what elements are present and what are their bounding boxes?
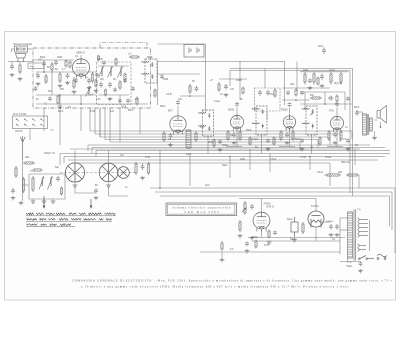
svg-text:T A: T A	[357, 209, 361, 212]
tube V4 detector	[283, 116, 295, 131]
svg-text:C5A5: C5A5	[236, 79, 243, 82]
svg-text:M C1 C2 FM: M C1 C2 FM	[13, 114, 26, 116]
wire phono stub	[12, 49, 15, 52]
svg-text:15 kΩ: 15 kΩ	[325, 156, 332, 159]
resistor R48	[336, 95, 338, 103]
capacitor C35	[160, 75, 164, 80]
capacitor V5kb	[333, 132, 337, 138]
capacitor V4kb	[285, 132, 289, 138]
capacitor C54	[131, 87, 135, 92]
wire osc link	[119, 95, 121, 104]
svg-text:6E8 G: 6E8 G	[77, 51, 86, 55]
capacitor C39	[195, 86, 199, 92]
svg-text:CA B: CA B	[166, 93, 172, 96]
ground V6 k	[250, 236, 255, 240]
wire v5 plate	[336, 130, 338, 147]
antenna	[20, 136, 25, 160]
page border frame	[5, 32, 396, 301]
svg-text:1nF: 1nF	[110, 110, 115, 113]
ground ant 2	[31, 200, 36, 204]
resistor R45	[33, 169, 43, 171]
wire bus line 1 left drop	[89, 108, 91, 131]
ground C3	[87, 86, 92, 90]
resistor R11	[195, 131, 197, 142]
wire heater rail 2	[252, 240, 340, 242]
tube V6 output	[253, 212, 270, 231]
wire screen rail drop	[205, 44, 207, 112]
capacitor C13 disc	[258, 90, 262, 96]
svg-text:50nF: 50nF	[121, 107, 127, 109]
wire AVC rail 3	[68, 159, 378, 161]
wire V1 grid top	[80, 58, 82, 61]
wire tuner bottom rail	[36, 103, 148, 105]
wire ant coil box	[29, 174, 65, 199]
output transformer T5 core	[367, 114, 368, 135]
tube V2 FM IF	[170, 116, 186, 135]
wire bus down 7	[329, 163, 331, 186]
svg-text:6T5: 6T5	[329, 109, 334, 113]
resistor R19	[330, 72, 332, 85]
wire V1 plate up	[80, 55, 82, 61]
wire V6 plate up	[261, 199, 263, 213]
resistor R3 cathode	[73, 78, 75, 89]
ground p3	[335, 233, 340, 237]
wire right edge drop 3	[389, 196, 391, 226]
resistor R27 6800	[346, 174, 359, 176]
capacitor C48	[346, 97, 350, 102]
handwritten note line 1	[26, 213, 116, 216]
wire grid cap tube 4	[289, 108, 291, 118]
wire left col	[11, 62, 13, 65]
capacitor C4 osc	[99, 82, 103, 88]
capacitor C27 50uF	[359, 262, 363, 267]
resistor R41	[249, 137, 251, 146]
IF transformer T1	[142, 59, 157, 83]
svg-text:OC: OC	[120, 154, 124, 157]
junction a1	[324, 103, 326, 105]
wire bus line 2	[95, 133, 340, 135]
ground u3	[300, 147, 305, 151]
wire bus line 3 right drop	[329, 137, 331, 145]
ground u4	[346, 147, 351, 151]
handwritten note line 2	[26, 218, 112, 221]
wire tuner drop f	[139, 108, 141, 134]
wire tuner drop b	[59, 108, 61, 145]
svg-text:470k: 470k	[90, 110, 96, 113]
wire IF top rail	[158, 73, 201, 75]
resistor R10	[163, 131, 165, 142]
wire grid cap tube 2	[177, 106, 179, 116]
wire top rail	[158, 43, 206, 45]
resistor R38	[295, 89, 297, 97]
wire heater rail	[248, 237, 345, 239]
wire audio h2	[300, 103, 352, 105]
svg-text:2MΩ: 2MΩ	[240, 158, 245, 161]
wire bus line 2 left drop	[94, 108, 96, 134]
wire right edge drop 2	[391, 192, 393, 230]
wire antenna down	[22, 160, 24, 201]
coil block L4 FM IF	[186, 130, 191, 148]
wire ift3 drop	[261, 135, 263, 154]
svg-text:AP: AP	[355, 144, 359, 147]
wire mid drop 265	[264, 69, 266, 89]
svg-text:1kΩ: 1kΩ	[338, 171, 343, 174]
capacitor C40	[218, 140, 222, 145]
svg-text:0,1μF: 0,1μF	[214, 100, 221, 103]
shield box oscillator (dashed)	[97, 62, 132, 105]
resistor R15 padder	[135, 162, 137, 175]
svg-text:50nF: 50nF	[246, 129, 252, 132]
wire mid drop 230	[229, 71, 231, 87]
capacitor grid cap C11	[288, 102, 292, 107]
ground V5k	[333, 141, 338, 145]
wire audio row top	[300, 71, 348, 73]
wire bus line 1	[90, 130, 352, 132]
wire V1 pins to parts	[73, 77, 75, 80]
svg-text:1MΩ: 1MΩ	[57, 56, 62, 59]
wire gang mechanical link (dashed)	[60, 172, 135, 174]
resistor V5kc	[340, 130, 342, 141]
wire bus line 8 left drop	[95, 151, 97, 157]
ground p2	[329, 233, 334, 237]
wire heater long	[200, 251, 340, 253]
svg-text:50nF: 50nF	[128, 109, 134, 112]
small filter box	[28, 63, 44, 69]
wire audio v	[324, 92, 326, 104]
resistor R23	[239, 220, 241, 232]
capacitor grid cap C12	[335, 102, 339, 107]
ground V1 cathode	[72, 90, 77, 94]
capacitor C49	[245, 242, 249, 247]
junction bus 2	[229, 156, 231, 158]
svg-text:50p: 50p	[55, 166, 60, 169]
resistor R13 ant	[32, 176, 34, 192]
capacitor C32	[95, 73, 99, 78]
capacitor C44	[11, 188, 15, 194]
svg-text:50n: 50n	[310, 94, 315, 97]
wire AVC rail 1	[60, 153, 390, 155]
capacitor C50	[329, 224, 333, 230]
resistor V4ka	[280, 130, 282, 141]
wire bus down 6	[309, 157, 311, 171]
resistor R36	[218, 82, 220, 92]
resistor R17 vol	[304, 72, 306, 85]
svg-text:1M: 1M	[270, 93, 273, 96]
resistor R52	[115, 58, 117, 66]
wire V6 drop	[261, 229, 263, 238]
coil L5 ant	[39, 177, 44, 190]
svg-text:2M: 2M	[48, 90, 51, 93]
wire V3k gnd rail	[226, 146, 242, 148]
wire bus line 4 right drop	[317, 140, 319, 148]
ground C36	[224, 93, 229, 97]
svg-text:50μF: 50μF	[222, 164, 228, 167]
wire mid rail 86	[219, 78, 247, 80]
wire R27 drop	[358, 175, 360, 188]
IF transformer T4	[302, 106, 317, 135]
wire gang b2	[109, 186, 129, 196]
wire osc bottom rail	[98, 94, 129, 96]
ground left col 2	[18, 77, 23, 81]
tuning gang C17 section 2	[99, 163, 118, 182]
band switch unit box	[13, 116, 48, 129]
capacitor C37	[286, 91, 290, 96]
capacitor C24 g	[250, 204, 254, 210]
IF transformer T3	[252, 106, 267, 135]
wire tuner drop e	[119, 108, 121, 142]
wire trafo bottom	[340, 261, 361, 263]
ground mains	[358, 269, 363, 273]
resistor R4 screen	[91, 72, 93, 83]
svg-text:6K7: 6K7	[168, 109, 173, 113]
wire tuner inner drop1	[59, 95, 61, 104]
resistor R21	[310, 97, 322, 99]
tuning gang C18 section 3	[118, 167, 130, 179]
resistor R9 disc	[274, 88, 276, 98]
ground V2 cluster	[168, 143, 173, 147]
wire tuner drop c	[80, 108, 82, 131]
svg-text:⊥P: ⊥P	[209, 79, 213, 82]
phono socket J1	[15, 46, 28, 62]
svg-text:50nF: 50nF	[318, 45, 324, 48]
aux socket box	[184, 45, 204, 58]
ground left col 1	[10, 73, 15, 77]
wire V5k gnd rail	[327, 146, 343, 148]
aux socket contacts	[189, 48, 199, 54]
capacitor V3kb	[232, 132, 236, 138]
IF transformer T2	[199, 110, 214, 136]
resistor V4kc	[292, 130, 294, 141]
svg-text:50nF: 50nF	[354, 106, 360, 109]
resistor R25 filter	[302, 222, 304, 234]
resistor V5ka	[328, 130, 330, 141]
ground C2	[65, 81, 70, 85]
wire spk tail	[380, 122, 382, 127]
wire bus line 8	[96, 150, 390, 152]
svg-text:50nF: 50nF	[295, 138, 301, 141]
resistor R18	[313, 72, 315, 85]
wire osc top rail	[98, 65, 129, 67]
ground padder	[140, 176, 145, 180]
capacitor C43	[346, 139, 350, 144]
capacitor C55	[74, 79, 78, 84]
ground u1	[218, 148, 223, 152]
wire V4k gnd rail	[279, 146, 295, 148]
wire mid drop 240	[239, 62, 241, 101]
junction if 1	[189, 95, 191, 97]
svg-text:50nF: 50nF	[147, 56, 153, 59]
wire secondary bus	[369, 220, 371, 251]
svg-text:65A5: 65A5	[228, 108, 235, 112]
ground p1	[245, 249, 250, 253]
wire bus line 6 left drop	[87, 145, 89, 151]
ground ant 1	[19, 201, 24, 205]
resistor R5 osc	[119, 80, 121, 90]
capacitor C23 spk	[355, 110, 359, 116]
svg-text:CGE mod 5563: CGE mod 5563	[185, 210, 220, 214]
annotation arrow 2	[90, 199, 93, 209]
resistor R31	[65, 60, 67, 68]
capacitor C47	[308, 79, 312, 84]
ground ant 4	[51, 200, 56, 204]
wire V7 drop	[315, 228, 317, 242]
resistor R53	[95, 79, 97, 88]
junction bus 3	[309, 156, 311, 158]
capacitor C53	[123, 79, 127, 84]
resistor R43	[319, 137, 321, 146]
resistor R47	[317, 77, 319, 86]
svg-text:50μF: 50μF	[287, 218, 293, 221]
ground p4	[220, 258, 225, 262]
capacitor C3 screen	[87, 78, 91, 84]
svg-text:50nF: 50nF	[160, 105, 166, 108]
resistor R32	[104, 89, 106, 97]
wire bus line 1 right drop	[351, 131, 353, 139]
resistor R16 padder	[147, 162, 149, 175]
ground R2	[58, 84, 63, 88]
svg-text:0,5μF: 0,5μF	[270, 158, 277, 161]
svg-text:470kΩ: 470kΩ	[264, 203, 271, 206]
svg-text:470: 470	[200, 126, 205, 129]
wire left col row	[8, 61, 33, 63]
handwritten note line 3	[26, 224, 75, 227]
band switch contacts	[16, 119, 44, 127]
wire avc drop left2	[63, 157, 65, 164]
wire ift4 drop	[311, 135, 313, 154]
wire phono to shield box	[28, 48, 34, 50]
svg-text:50nF: 50nF	[58, 110, 64, 113]
annotation arrow 1	[43, 196, 46, 209]
capacitor C42	[300, 139, 304, 144]
power transformer T6 primary	[348, 212, 353, 258]
wire avc drop left	[59, 154, 61, 166]
svg-text:300Ω: 300Ω	[222, 144, 228, 147]
capacitor C36	[224, 84, 228, 90]
wire bus line 7	[92, 147, 385, 149]
junction tuner 1	[59, 94, 61, 96]
resistor R46	[60, 187, 62, 196]
resistor R24 V6k	[268, 230, 270, 239]
wire bus extra 2	[72, 162, 330, 164]
wire antenna input row	[33, 59, 74, 61]
wire if mid	[180, 95, 205, 97]
wire B+ bottom rail 3	[160, 195, 390, 197]
svg-text:150pF 7,5: 150pF 7,5	[44, 152, 55, 155]
discriminator box (dashed)	[255, 88, 281, 111]
capacitor C22	[328, 96, 334, 100]
ground V4k	[285, 141, 290, 145]
capacitor C14 disc	[266, 90, 270, 96]
wire audio drop2	[304, 92, 306, 110]
junction tuner 3	[43, 71, 45, 73]
mains plug	[377, 254, 387, 259]
svg-text:470k: 470k	[145, 156, 151, 159]
tube V5 AF amp	[330, 116, 343, 132]
wire audio link	[300, 91, 345, 93]
junction spk	[380, 126, 382, 128]
ground u2	[266, 147, 271, 151]
capacitor C51	[335, 224, 339, 230]
coil L3 osc	[118, 67, 123, 78]
resistor R12 ant	[22, 177, 24, 193]
svg-text:50μF: 50μF	[347, 265, 353, 268]
capacitor C2	[66, 73, 70, 79]
capacitor C15	[169, 133, 173, 139]
wire speaker gnd	[374, 131, 376, 136]
resistor R35	[154, 89, 156, 98]
tube V7 rectifier	[308, 211, 324, 228]
wire bus down 3	[229, 157, 231, 179]
title box inner	[168, 204, 235, 214]
ground l1	[11, 196, 16, 200]
capacitor C46	[94, 189, 98, 194]
ground R24	[267, 241, 272, 245]
resistor R22 vol pot	[244, 201, 246, 215]
wire tuner row A	[36, 71, 96, 73]
wire V6 plate rail	[239, 198, 316, 200]
capacitor C34	[34, 87, 38, 92]
output transformer T5 primary	[363, 114, 367, 135]
capacitor C26 50nF block	[291, 217, 298, 237]
capacitor grid cap C10	[235, 102, 239, 107]
ground V6 grid	[238, 234, 243, 238]
svg-text:2x350V: 2x350V	[326, 221, 334, 223]
resistor R54	[69, 61, 71, 69]
wire bus down 4	[249, 149, 251, 170]
wire B+ loop A	[158, 62, 285, 106]
capacitor C19 padder	[141, 164, 145, 171]
capacitor C31	[54, 60, 58, 66]
wire mains left	[348, 258, 353, 262]
ground V3k	[232, 141, 237, 145]
svg-text:1MΩ: 1MΩ	[163, 78, 168, 81]
wire R26 chain	[324, 174, 325, 176]
wire AVC rail 2	[64, 156, 385, 158]
wire left col 2	[19, 62, 21, 64]
output transformer T5 secondary	[369, 118, 372, 131]
wire transformer left 1	[340, 217, 348, 219]
svg-text:0,5μF: 0,5μF	[252, 138, 259, 141]
resistor R6 2.2k	[129, 56, 140, 58]
ground C26	[292, 238, 297, 242]
ground C30	[36, 82, 41, 86]
shield box tuner (dash-dot)	[33, 48, 151, 108]
wire bus line 4 left drop	[104, 108, 106, 140]
svg-text:5Y3 G: 5Y3 G	[311, 204, 319, 208]
title box outer	[166, 203, 237, 216]
wire right edge drop 1	[394, 188, 396, 253]
svg-text:2kΩ: 2kΩ	[25, 156, 30, 159]
wire V7 top	[315, 199, 317, 212]
wire bus line 4	[105, 139, 318, 141]
resistor R33	[124, 73, 126, 82]
svg-text:65Q5: 65Q5	[281, 108, 288, 112]
wire bus line 2 right drop	[339, 134, 341, 142]
wire bus down 8	[354, 149, 356, 165]
wire bus line 3 left drop	[99, 108, 101, 137]
capacitor C38	[300, 91, 304, 96]
wire tuner drop a	[43, 108, 45, 131]
wire tuner inner drop2	[80, 95, 82, 104]
coil L7	[86, 87, 91, 97]
svg-text:1,5n: 1,5n	[96, 98, 101, 101]
svg-text:AVC: AVC	[205, 184, 210, 187]
wire bus extra 1	[70, 148, 360, 150]
wire tuner col 1	[43, 60, 45, 72]
resistor R7	[136, 97, 138, 106]
wire gang bottom	[75, 186, 96, 193]
ground gang 1	[73, 184, 78, 188]
